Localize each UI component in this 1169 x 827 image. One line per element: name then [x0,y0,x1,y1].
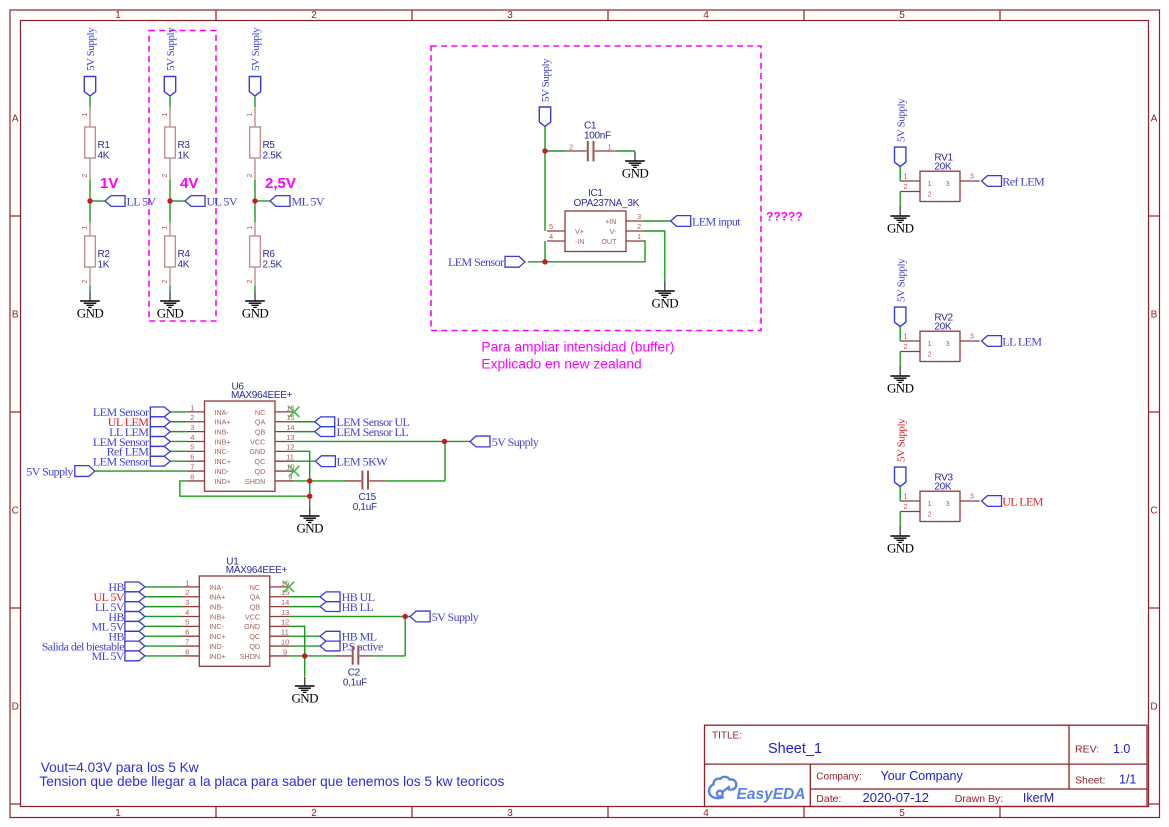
svg-text:2.5K: 2.5K [263,151,283,162]
svg-text:0,1uF: 0,1uF [353,502,377,513]
svg-text:5V Supply: 5V Supply [85,27,97,71]
svg-text:QA: QA [255,418,266,427]
svg-text:D: D [12,702,19,713]
svg-text:A: A [12,114,19,125]
svg-text:GND: GND [887,381,914,396]
svg-text:2: 2 [82,174,89,178]
svg-text:3: 3 [507,808,513,819]
svg-text:LL LEM: LL LEM [1002,335,1042,349]
svg-text:1: 1 [190,403,194,412]
svg-text:Your Company: Your Company [881,769,964,783]
svg-text:1: 1 [247,226,254,230]
svg-text:2: 2 [903,342,907,351]
svg-text:GND: GND [291,691,318,706]
svg-text:R2: R2 [98,249,111,260]
svg-text:4: 4 [703,808,709,819]
svg-text:5V Supply: 5V Supply [432,610,479,624]
svg-text:4: 4 [703,10,709,21]
svg-text:1V: 1V [100,175,118,192]
svg-text:1: 1 [247,113,254,117]
svg-text:LEM Sensor LL: LEM Sensor LL [337,425,409,439]
svg-text:QB: QB [255,428,266,437]
svg-text:REV:: REV: [1075,744,1099,756]
svg-text:2: 2 [247,174,254,178]
svg-text:3: 3 [946,179,950,188]
svg-text:14: 14 [281,598,289,607]
svg-text:2: 2 [82,280,89,284]
svg-text:HB LL: HB LL [342,600,374,614]
svg-text:5V Supply: 5V Supply [250,27,262,71]
svg-text:INC-: INC- [214,447,229,456]
svg-text:Sheet_1: Sheet_1 [768,741,822,757]
svg-text:INA-: INA- [209,583,224,592]
svg-text:15: 15 [281,588,289,597]
svg-text:+IN: +IN [605,217,616,226]
svg-text:VCC: VCC [250,437,265,446]
svg-text:INB+: INB+ [214,437,230,446]
svg-text:5V Supply: 5V Supply [895,418,907,462]
svg-text:INC-: INC- [209,622,224,631]
svg-text:20K: 20K [934,321,952,332]
svg-text:3: 3 [185,598,189,607]
svg-text:LEM Sensor: LEM Sensor [93,455,149,469]
svg-text:11: 11 [286,453,294,462]
svg-text:12: 12 [281,618,289,627]
svg-text:14: 14 [286,423,294,432]
svg-text:6: 6 [190,453,194,462]
svg-text:GND: GND [77,306,104,321]
svg-text:2: 2 [903,502,907,511]
svg-text:INC+: INC+ [209,632,226,641]
svg-text:LL 5V: LL 5V [127,195,157,209]
svg-text:EasyEDA: EasyEDA [737,786,806,803]
svg-text:2: 2 [247,280,254,284]
svg-text:2: 2 [311,808,317,819]
svg-text:6: 6 [185,628,189,637]
svg-text:SHDN: SHDN [245,477,265,486]
svg-text:UL LEM: UL LEM [1002,495,1043,509]
svg-text:1: 1 [82,226,89,230]
svg-text:GND: GND [622,166,649,181]
svg-text:8: 8 [185,647,189,656]
svg-text:MAX964EEE+: MAX964EEE+ [231,390,293,401]
svg-text:NC: NC [250,583,260,592]
svg-text:OPA237NA_3K: OPA237NA_3K [574,198,640,209]
svg-text:2,5V: 2,5V [265,175,296,192]
svg-text:INA-: INA- [214,408,229,417]
svg-text:5: 5 [899,808,905,819]
svg-text:13: 13 [286,433,294,442]
svg-text:Company:: Company: [816,771,862,782]
svg-text:R6: R6 [263,249,276,260]
svg-text:2: 2 [190,413,194,422]
svg-text:GND: GND [242,306,269,321]
svg-text:0,1uF: 0,1uF [343,678,367,689]
svg-text:1/1: 1/1 [1119,772,1136,786]
svg-text:QD: QD [255,467,266,476]
svg-text:3: 3 [946,339,950,348]
svg-text:11: 11 [281,628,289,637]
svg-text:1: 1 [903,492,907,501]
svg-text:INB-: INB- [209,603,224,612]
svg-text:5V Supply: 5V Supply [895,98,907,142]
svg-text:1: 1 [928,179,932,188]
svg-text:TITLE:: TITLE: [712,731,742,742]
svg-text:2: 2 [162,280,169,284]
svg-text:1: 1 [115,10,121,21]
svg-text:2: 2 [185,588,189,597]
svg-text:2: 2 [928,510,932,519]
svg-text:INB+: INB+ [209,612,225,621]
svg-text:3: 3 [970,332,974,341]
svg-text:B: B [12,310,19,321]
svg-text:QC: QC [255,457,266,466]
svg-text:3: 3 [970,172,974,181]
svg-text:2: 2 [162,174,169,178]
svg-text:1: 1 [903,332,907,341]
svg-text:1: 1 [637,232,641,241]
svg-text:3: 3 [637,212,641,221]
svg-text:INA+: INA+ [214,418,230,427]
svg-text:INA+: INA+ [209,593,225,602]
svg-text:D: D [1150,702,1157,713]
svg-text:1K: 1K [178,151,190,162]
svg-text:ML 5V: ML 5V [92,649,125,663]
svg-text:1: 1 [162,113,169,117]
svg-text:1: 1 [162,226,169,230]
svg-text:QB: QB [250,603,261,612]
svg-text:1: 1 [82,113,89,117]
svg-text:QC: QC [249,632,260,641]
svg-text:7: 7 [185,637,189,646]
svg-text:INC+: INC+ [214,457,231,466]
svg-text:8: 8 [190,472,194,481]
svg-text:4: 4 [549,232,553,241]
svg-text:2: 2 [903,182,907,191]
svg-text:V+: V+ [575,227,584,236]
svg-text:2.5K: 2.5K [263,260,283,271]
svg-text:13: 13 [281,608,289,617]
svg-text:7: 7 [190,462,194,471]
svg-text:2: 2 [928,350,932,359]
svg-text:NC: NC [255,408,265,417]
svg-text:2: 2 [637,222,641,231]
svg-text:5V Supply: 5V Supply [26,464,73,478]
svg-text:1: 1 [185,578,189,587]
svg-text:GND: GND [249,447,265,456]
svg-text:4K: 4K [98,151,110,162]
svg-text:ML 5V: ML 5V [292,195,325,209]
svg-text:GND: GND [296,521,323,536]
svg-text:4V: 4V [180,175,198,192]
svg-text:OUT: OUT [601,237,617,246]
svg-text:GND: GND [244,622,260,631]
svg-text:IND+: IND+ [214,477,231,486]
svg-text:R3: R3 [178,140,191,151]
svg-text:100nF: 100nF [584,130,611,141]
svg-text:2: 2 [928,190,932,199]
svg-text:IND-: IND- [214,467,229,476]
svg-text:1: 1 [928,339,932,348]
svg-text:3: 3 [946,499,950,508]
svg-text:R1: R1 [98,140,111,151]
svg-text:C: C [12,506,19,517]
svg-text:SHDN: SHDN [240,652,260,661]
svg-text:Drawn By:: Drawn By: [955,793,1003,805]
svg-text:20K: 20K [934,481,952,492]
svg-text:Explicado en new zealand: Explicado en new zealand [481,357,641,372]
svg-text:IND+: IND+ [209,652,226,661]
svg-text:B: B [1151,310,1158,321]
svg-text:GND: GND [652,296,679,311]
svg-text:5: 5 [549,222,553,231]
svg-text:QD: QD [249,642,260,651]
svg-text:GND: GND [887,221,914,236]
svg-text:P.S active: P.S active [342,639,383,653]
svg-text:1K: 1K [98,260,110,271]
svg-text:20K: 20K [934,161,952,172]
svg-text:MAX964EEE+: MAX964EEE+ [226,565,288,576]
svg-text:Date:: Date: [816,793,841,805]
svg-text:5V Supply: 5V Supply [165,27,177,71]
svg-text:2020-07-12: 2020-07-12 [863,790,930,805]
svg-text:5: 5 [899,10,905,21]
svg-text:3: 3 [970,492,974,501]
svg-text:2: 2 [569,142,573,151]
svg-text:A: A [1151,114,1158,125]
svg-text:V-: V- [610,227,617,236]
svg-text:LEM Sensor: LEM Sensor [448,255,504,269]
svg-text:3: 3 [507,10,513,21]
svg-text:5: 5 [190,443,194,452]
svg-text:1: 1 [115,808,121,819]
svg-text:GND: GND [157,306,184,321]
svg-text:UL 5V: UL 5V [207,195,238,209]
svg-text:Sheet:: Sheet: [1075,774,1105,786]
svg-text:-IN: -IN [575,237,585,246]
svg-text:Ref LEM: Ref LEM [1002,175,1045,189]
svg-text:Para ampliar intensidad (buffe: Para ampliar intensidad (buffer) [481,340,674,355]
svg-text:VCC: VCC [245,612,260,621]
svg-text:5V Supply: 5V Supply [492,435,539,449]
svg-text:10: 10 [281,637,289,646]
svg-text:4: 4 [185,608,189,617]
svg-text:5: 5 [185,618,189,627]
svg-text:LEM 5KW: LEM 5KW [337,455,389,469]
svg-text:12: 12 [286,443,294,452]
svg-text:QA: QA [250,593,261,602]
svg-text:GND: GND [887,541,914,556]
svg-text:4: 4 [190,433,194,442]
svg-text:1.0: 1.0 [1113,742,1130,756]
svg-text:Tension que debe llegar a la p: Tension que debe llegar a la placa para … [39,774,504,789]
svg-text:Vout=4.03V para los 5 Kw: Vout=4.03V para los 5 Kw [41,760,199,775]
svg-text:IND-: IND- [209,642,224,651]
svg-text:R5: R5 [263,140,276,151]
svg-text:IkerM: IkerM [1023,791,1054,805]
svg-text:C: C [1150,506,1157,517]
svg-text:INB-: INB- [214,428,229,437]
svg-text:?????: ????? [766,210,803,224]
svg-text:5V Supply: 5V Supply [895,258,907,302]
svg-text:3: 3 [190,423,194,432]
svg-text:9: 9 [283,647,287,656]
svg-text:2: 2 [311,10,317,21]
svg-text:1: 1 [608,142,612,151]
svg-text:LEM input: LEM input [692,215,741,229]
svg-text:R4: R4 [178,249,191,260]
svg-text:15: 15 [286,413,294,422]
svg-text:4K: 4K [178,260,190,271]
svg-text:5V Supply: 5V Supply [540,58,552,102]
svg-text:1: 1 [928,499,932,508]
svg-text:1: 1 [903,172,907,181]
